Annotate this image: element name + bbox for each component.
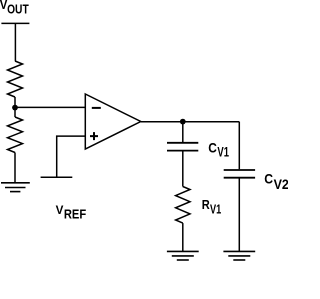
wire (op-amp output): [141, 121, 240, 123]
wire: [238, 122, 240, 170]
wire: [15, 106, 85, 108]
svg-text:V1: V1: [217, 145, 229, 160]
wire (to + input): [57, 136, 86, 177]
svg-text:C: C: [264, 171, 273, 187]
ground (below CV2): [223, 251, 255, 260]
node B (output junction): [180, 119, 186, 125]
resistor RV1: [176, 187, 190, 224]
label RV1: [202, 197, 221, 216]
wire: [238, 179, 240, 252]
wire: [14, 23, 16, 61]
capacitor CV2: [224, 170, 255, 178]
wire: [182, 151, 184, 186]
V_OUT label: [0, 0, 29, 17]
svg-text:V1: V1: [210, 202, 221, 217]
wire: [182, 122, 184, 142]
ground (below R2): [1, 183, 30, 192]
ground (below RV1): [167, 251, 199, 260]
label CV2: [264, 171, 289, 192]
V_REF terminal: [41, 176, 73, 178]
svg-text:C: C: [208, 139, 217, 155]
svg-text:V2: V2: [274, 177, 288, 192]
wire: [14, 97, 16, 117]
svg-text:OUT: OUT: [7, 3, 29, 17]
resistor R1 (upper divider): [8, 61, 23, 97]
svg-text:REF: REF: [64, 207, 86, 222]
V_OUT terminal: [1, 22, 29, 24]
label CV1: [208, 139, 229, 159]
resistor R2 (lower divider): [8, 117, 23, 153]
V_REF label: [56, 203, 87, 221]
node A (feedback junction): [12, 105, 18, 111]
op-amp U1: [85, 94, 141, 149]
wire: [14, 153, 16, 183]
capacitor CV1: [167, 143, 198, 151]
wire: [182, 223, 184, 251]
